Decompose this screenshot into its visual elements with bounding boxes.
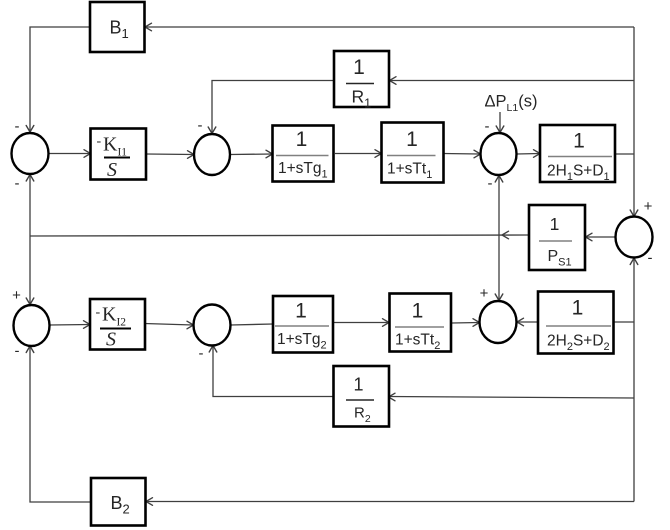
svg-text:1: 1 (550, 214, 560, 234)
svg-text:1: 1 (353, 375, 363, 395)
svg-text:1: 1 (295, 300, 307, 323)
svg-text:+: + (480, 285, 489, 302)
svg-text:-: - (199, 345, 204, 362)
svg-text:-: - (15, 343, 20, 360)
svg-text:1: 1 (572, 297, 584, 320)
svg-text:S: S (106, 329, 116, 351)
svg-text:1: 1 (296, 128, 308, 151)
svg-text:1: 1 (353, 56, 365, 79)
svg-text:-: - (488, 175, 493, 192)
svg-text:-: - (648, 250, 653, 267)
svg-text:-: - (485, 118, 490, 135)
svg-text:-: - (97, 134, 102, 149)
svg-text:-: - (15, 175, 20, 192)
svg-text:1: 1 (573, 130, 585, 153)
svg-text:1: 1 (406, 128, 418, 151)
svg-text:+: + (644, 198, 653, 215)
svg-text:-: - (96, 305, 101, 320)
svg-text:S: S (107, 159, 117, 181)
svg-text:-: - (15, 118, 20, 135)
svg-text:1: 1 (412, 300, 424, 323)
svg-text:+: + (12, 287, 21, 304)
svg-text:-: - (198, 117, 203, 134)
